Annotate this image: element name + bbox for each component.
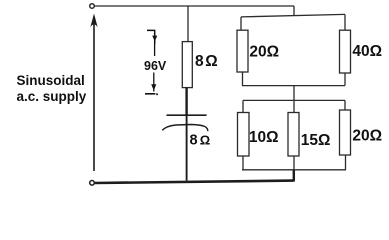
96V dashed segment lower xyxy=(153,73,155,92)
96V bottom dot xyxy=(156,93,158,95)
wire below lower 20ohm xyxy=(345,155,347,170)
resistor 15ohm (lower middle) xyxy=(288,113,299,157)
resistor 20ohm (lower right) xyxy=(340,110,351,155)
supply arrow head xyxy=(90,14,97,28)
resistor 10ohm (lower left) xyxy=(238,113,250,157)
wire stub to R 15ohm xyxy=(293,100,295,112)
terminal bottom-left xyxy=(90,181,95,186)
wire bottom edge of upper box xyxy=(242,85,345,87)
wire below 40ohm xyxy=(344,73,346,86)
svg-text:96V: 96V xyxy=(144,59,167,73)
wire below 10ohm xyxy=(242,156,244,170)
wire stub to R 20ohm lower xyxy=(344,100,346,110)
svg-text:Ω: Ω xyxy=(205,53,217,70)
wire stub to R 10ohm xyxy=(242,100,244,112)
wire top main xyxy=(95,5,295,7)
capacitor straight plate xyxy=(167,114,207,116)
wire below 15ohm xyxy=(293,156,295,170)
resistor 20ohm (upper left) xyxy=(237,30,248,72)
96V dimension top hook xyxy=(147,30,155,44)
wire top edge of upper parallel box xyxy=(241,14,345,17)
wire from 8ohm resistor through capacitor to bottom xyxy=(185,88,187,115)
svg-text:Sinusoidal: Sinusoidal xyxy=(17,73,85,88)
terminal top-left xyxy=(90,4,95,9)
wire bottom edge of lower box xyxy=(242,169,346,171)
capacitor curved plate xyxy=(162,125,207,132)
wire right drop to R 40ohm xyxy=(344,14,346,30)
svg-text:15Ω: 15Ω xyxy=(301,132,331,149)
wire top edge of lower parallel box xyxy=(243,99,345,101)
resistor 40ohm (upper right) xyxy=(340,30,351,73)
wire feed stub to top box xyxy=(293,6,295,16)
wire drop from 8ohm branch at top xyxy=(187,6,189,42)
svg-text:8: 8 xyxy=(190,133,198,149)
wire link between boxes xyxy=(293,86,295,101)
wire thick link up to lower box xyxy=(293,170,295,182)
svg-text:Ω: Ω xyxy=(200,133,210,148)
svg-text:20Ω: 20Ω xyxy=(352,128,382,145)
96V top arrow blob xyxy=(152,36,157,42)
svg-text:8: 8 xyxy=(195,53,204,70)
svg-text:40Ω: 40Ω xyxy=(352,43,382,60)
supply arrow shaft xyxy=(93,21,95,171)
wire left drop to R 20ohm xyxy=(240,17,242,30)
svg-text:20Ω: 20Ω xyxy=(249,44,279,61)
svg-text:10Ω: 10Ω xyxy=(249,129,279,146)
resistor 8ohm (series) xyxy=(182,42,192,88)
wire bottom main (thick) xyxy=(95,181,294,183)
svg-text:a.c. supply: a.c. supply xyxy=(17,89,87,104)
96V dashed segment upper xyxy=(154,45,156,57)
96V bottom serif xyxy=(145,93,155,95)
96V bottom arrow blob xyxy=(151,84,156,90)
wire below 20ohm xyxy=(242,72,244,86)
